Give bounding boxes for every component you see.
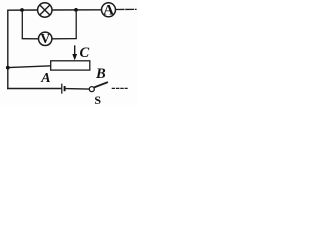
wire voltmeter branch left horizontal [22, 38, 39, 40]
wire ammeter to right edge [116, 8, 137, 10]
svg-text:V: V [40, 31, 50, 46]
node top-right junction [74, 8, 78, 12]
wire top-left segment [8, 9, 38, 11]
svg-text:A: A [40, 71, 50, 86]
wire left vertical [7, 10, 9, 90]
voltmeter V [39, 31, 52, 46]
svg-text:B: B [95, 66, 106, 82]
node top-left junction [20, 8, 24, 12]
ammeter A [102, 3, 116, 19]
battery cell [62, 84, 65, 94]
wire battery to switch [66, 88, 90, 91]
svg-text:C: C [80, 45, 90, 61]
lamp X1 [38, 3, 52, 17]
rheostat AB [51, 61, 90, 70]
wire bottom right dashed [112, 87, 128, 89]
wire to rheostat [8, 66, 52, 68]
slider arrow C [72, 45, 77, 60]
node left junction [6, 66, 10, 70]
svg-text:S: S [94, 93, 101, 105]
svg-text:A: A [103, 3, 114, 19]
wire lamp to ammeter [52, 9, 102, 11]
wire bottom left [7, 88, 61, 90]
wire voltmeter branch right horizontal [52, 38, 77, 40]
wire voltmeter branch left vertical [21, 10, 23, 39]
wire voltmeter branch right vertical [75, 10, 77, 39]
switch S [89, 82, 108, 92]
